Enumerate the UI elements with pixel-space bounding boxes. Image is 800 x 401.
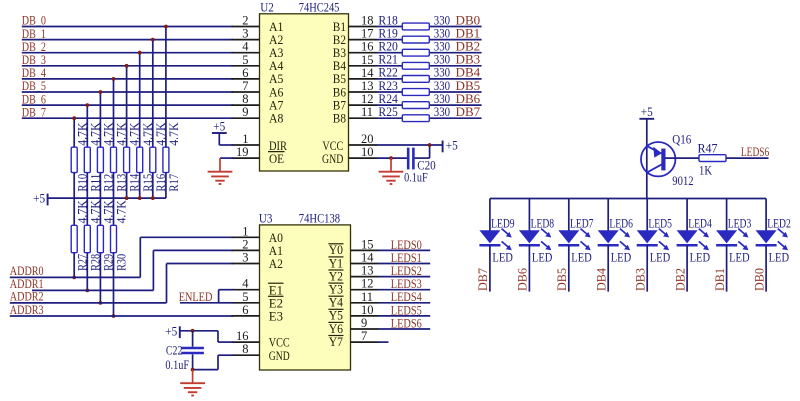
svg-text:B2: B2 [333, 33, 346, 47]
wire LED7 cathode [568, 245, 570, 291]
wire U3 GND route [193, 355, 233, 369]
capacitor C20 [404, 148, 436, 185]
svg-text:16: 16 [236, 329, 249, 343]
wire R27 to ADDR0 [73, 253, 75, 278]
wire R47 to LEDS6 [726, 157, 769, 159]
svg-text:E2: E2 [269, 296, 283, 310]
net label DB5 (rotated) [555, 268, 569, 291]
svg-text:LED: LED [690, 250, 711, 264]
svg-text:LED4: LED4 [688, 217, 712, 231]
net label LEDS5 [391, 303, 422, 317]
svg-text:DB_7: DB_7 [22, 105, 46, 119]
svg-text:DB5: DB5 [555, 268, 569, 291]
IC U2 designator [260, 0, 274, 14]
pin 8 (GND) of U3 [232, 342, 290, 363]
wire DB_5 to U2 pin 7 [22, 91, 233, 93]
svg-text:DB3: DB3 [456, 53, 481, 67]
svg-text:12: 12 [361, 92, 374, 106]
wire U3 Y5 to LEDS5 [379, 315, 431, 317]
junction on +5 rail [151, 196, 155, 200]
net label ADDR0 [10, 264, 44, 278]
wire +5 rail to R30 [113, 198, 115, 225]
net label DB6 (rotated) [516, 268, 530, 291]
net label DB_1 [22, 27, 46, 41]
wire LED anode bus [490, 198, 766, 200]
net label DB_7 [22, 105, 46, 119]
IC U2 part value 74HC245 [299, 0, 340, 14]
svg-text:DB4: DB4 [456, 66, 481, 80]
pin 8 (A7) of U2 [232, 92, 284, 112]
svg-text:10: 10 [361, 145, 374, 159]
resistor R17 [163, 123, 181, 192]
wire R12 to +5 rail [99, 173, 101, 199]
pin 13 (Y2) of U3 [328, 264, 378, 284]
svg-text:R22: R22 [378, 66, 398, 80]
pin 5 (A4) of U2 [232, 53, 285, 73]
wire R13 to +5 rail [113, 173, 115, 199]
wire ADDR1 to U3 A1 [32, 250, 233, 290]
svg-text:LED: LED [611, 250, 632, 264]
resistor R15 [137, 123, 155, 192]
svg-text:6: 6 [242, 66, 248, 80]
svg-text:LED3: LED3 [728, 217, 752, 231]
net label ENLED [179, 290, 213, 304]
svg-text:13: 13 [361, 264, 374, 278]
wire DB_2 to U2 pin 4 [22, 52, 233, 54]
svg-text:DB5: DB5 [456, 79, 481, 93]
svg-text:Y3: Y3 [329, 283, 343, 297]
svg-text:330: 330 [434, 13, 450, 27]
svg-text:A0: A0 [269, 231, 283, 245]
net label DB5 [456, 79, 481, 93]
capacitor C22 [165, 331, 204, 372]
junction on ADDR2 [99, 301, 103, 305]
LED LED2 [756, 199, 791, 265]
net label DB2 (rotated) [673, 268, 687, 291]
svg-text:0.1uF: 0.1uF [165, 358, 189, 372]
pin 15 (Y0) of U3 [328, 237, 378, 257]
svg-text:ADDR3: ADDR3 [10, 303, 44, 317]
net label ADDR1 [10, 277, 44, 291]
wire DB_1 to U2 pin 3 [22, 39, 233, 41]
net label DB6 [456, 92, 481, 106]
resistor R16 [150, 123, 168, 192]
LED LED6 [598, 199, 633, 265]
wire DB_7 to U2 pin 9 [22, 117, 233, 119]
net label DB7 (rotated) [476, 268, 490, 291]
resistor R22 [378, 66, 450, 83]
net label DB_5 [22, 79, 46, 93]
svg-text:1: 1 [242, 132, 248, 146]
wire DB_4 to U2 pin 6 [22, 78, 233, 80]
net label LEDS1 [391, 251, 422, 265]
junction on ADDR3 [112, 314, 116, 318]
wire +5 to U2 DIR [219, 144, 233, 146]
svg-text:Y6: Y6 [329, 322, 343, 336]
svg-text:R23: R23 [378, 79, 398, 93]
svg-text:LED6: LED6 [609, 217, 633, 231]
IC U3 74HC138 body [260, 225, 351, 370]
svg-text:19: 19 [236, 145, 249, 159]
svg-text:DB7: DB7 [456, 105, 481, 119]
svg-text:U2: U2 [260, 0, 274, 14]
wire +5 to U3 VCC [180, 331, 233, 342]
pin 10 (Y5) of U3 [328, 303, 378, 323]
svg-text:DB0: DB0 [456, 13, 481, 27]
net label DB3 [456, 53, 481, 67]
svg-text:LEDS6: LEDS6 [741, 145, 769, 159]
IC U3 part value 74HC138 [299, 211, 340, 225]
svg-text:20: 20 [361, 132, 374, 146]
pin 7 (Y7) of U3 [328, 329, 378, 349]
svg-text:2: 2 [242, 237, 248, 251]
svg-text:LED7: LED7 [570, 217, 594, 231]
wire R29 to ADDR2 [99, 253, 101, 303]
wire DB_7 to R10 [73, 118, 75, 147]
net label LEDS6 [391, 316, 422, 330]
pin 2 (A1) of U3 [232, 237, 284, 258]
resistor R24 [378, 92, 450, 109]
net label ADDR2 [10, 290, 44, 304]
IC U3 designator [259, 211, 273, 225]
net label DB_6 [22, 92, 46, 106]
wire R10 to +5 rail [73, 173, 75, 199]
svg-text:17: 17 [361, 27, 374, 41]
pin 4 (E1) of U3 [232, 277, 284, 298]
net label DB7 [456, 105, 481, 119]
wire U3 Y2 to LEDS2 [379, 276, 431, 278]
svg-text:74HC138: 74HC138 [299, 211, 340, 225]
ground at U2 OE [208, 158, 233, 184]
svg-text:+5: +5 [446, 139, 458, 153]
pin 16 (VCC) of U3 [232, 329, 290, 350]
svg-text:DIR: DIR [269, 139, 288, 153]
junction on DB_0 [164, 25, 168, 29]
svg-text:B4: B4 [333, 59, 347, 73]
svg-text:DB1: DB1 [456, 26, 481, 40]
net label DB3 (rotated) [634, 268, 648, 291]
svg-text:4: 4 [242, 40, 249, 54]
svg-text:A8: A8 [269, 112, 283, 126]
junction C22 top [191, 329, 195, 333]
net label DB0 (rotated) [752, 268, 766, 291]
pin 2 (A1) of U2 [232, 14, 284, 34]
net label DB4 (rotated) [595, 267, 609, 291]
wire U2 OE to ground [220, 157, 233, 159]
wire ADDR3 to U3 E3 [10, 315, 233, 317]
wire R15 to +5 rail [139, 173, 141, 199]
svg-text:LED8: LED8 [531, 217, 555, 231]
pin 20 (VCC) of U2 [322, 132, 377, 153]
wire ADDR0 to U3 A0 [10, 237, 233, 277]
transistor Q16 9012 [641, 133, 694, 188]
svg-text:DB0: DB0 [752, 268, 766, 291]
wire U2 pin 14 to DB4 [377, 78, 482, 80]
wire LED3 cathode [726, 245, 728, 291]
svg-text:A7: A7 [269, 98, 283, 112]
wire DB_2 to R15 [139, 53, 141, 148]
LED LED7 [558, 199, 593, 265]
resistor R23 [378, 79, 450, 96]
LED LED5 [637, 199, 672, 265]
wire +5 rail [48, 197, 166, 199]
ground at U2 GND [379, 158, 404, 184]
wire U2 pin 11 to DB7 [377, 117, 482, 119]
net label DB2 [456, 40, 481, 54]
svg-text:A1: A1 [269, 20, 283, 34]
svg-text:13: 13 [361, 79, 374, 93]
wire ADDR2 to U3 A2 [10, 264, 233, 303]
svg-text:Y0: Y0 [329, 243, 343, 257]
wire DB_5 to R12 [99, 92, 101, 147]
svg-text:8: 8 [242, 92, 248, 106]
svg-text:GND: GND [322, 152, 343, 166]
svg-text:LEDS3: LEDS3 [391, 277, 422, 291]
pin 12 (B7) of U2 [333, 92, 377, 112]
svg-text:1K: 1K [699, 164, 712, 178]
svg-text:Y1: Y1 [329, 256, 343, 270]
svg-text:Q16: Q16 [672, 133, 691, 147]
net label DB_3 [22, 53, 46, 67]
junction C22 bottom [191, 368, 195, 372]
wire DB_3 to U2 pin 5 [22, 65, 233, 67]
pin 7 (A6) of U2 [232, 79, 284, 99]
resistor R30 [111, 200, 129, 271]
wire LED9 cathode [489, 245, 491, 291]
wire U2 VCC to +5 [377, 144, 443, 146]
junction on DB_2 [138, 51, 142, 55]
svg-text:9: 9 [242, 105, 248, 119]
wire R28 to ADDR1 [86, 253, 88, 291]
junction on DB_5 [99, 90, 103, 94]
svg-text:DB6: DB6 [456, 92, 481, 106]
svg-text:9: 9 [361, 316, 367, 330]
svg-text:12: 12 [361, 277, 374, 291]
svg-text:B8: B8 [333, 112, 346, 126]
resistor R29 [97, 200, 115, 271]
pin 14 (B5) of U2 [333, 66, 377, 86]
wire DB_3 to R14 [126, 66, 128, 147]
wire R14 to +5 rail [126, 173, 128, 199]
svg-text:4: 4 [242, 277, 249, 291]
resistor R27 [71, 200, 89, 271]
ground below C22 [180, 370, 205, 396]
wire ENLED to U3 E1/E2 [180, 290, 233, 303]
svg-text:DB7: DB7 [476, 268, 490, 291]
svg-text:330: 330 [434, 66, 450, 80]
pin 14 (Y1) of U3 [328, 251, 378, 271]
svg-text:R17: R17 [167, 174, 181, 192]
svg-text:7: 7 [361, 329, 367, 343]
svg-text:Y4: Y4 [329, 296, 344, 310]
net label DB_0 [22, 14, 46, 28]
resistor R18 [378, 13, 450, 30]
svg-text:15: 15 [361, 237, 374, 251]
resistor R19 [378, 26, 450, 43]
resistor R12 [97, 123, 115, 192]
wire Q16 emitter/collector vertical [646, 119, 648, 199]
svg-text:A6: A6 [269, 85, 283, 99]
resistor R25 [378, 105, 450, 122]
wire LED4 cathode [686, 245, 688, 291]
svg-text:R21: R21 [378, 53, 398, 67]
svg-text:A5: A5 [269, 72, 283, 86]
junction on +5 rail [125, 196, 129, 200]
power +5 at U2 DIR [212, 119, 227, 145]
wire DB_0 to U2 pin 2 [22, 26, 233, 28]
wire R17 to +5 rail [165, 173, 167, 199]
pin 15 (B4) of U2 [333, 53, 377, 73]
wire R30 to ADDR3 [113, 253, 115, 316]
wire R16 to +5 rail [152, 173, 154, 199]
svg-text:18: 18 [361, 14, 374, 28]
svg-text:B3: B3 [333, 46, 346, 60]
wire LED8 cathode [528, 245, 530, 291]
junction at U2 GND ground stem [389, 156, 393, 160]
wire Q16 base to R47 [665, 157, 699, 159]
svg-text:C22: C22 [166, 344, 183, 358]
resistor R47 [698, 142, 727, 178]
svg-text:16: 16 [361, 40, 374, 54]
svg-text:7: 7 [242, 79, 248, 93]
svg-text:Y7: Y7 [329, 335, 343, 349]
net label LEDS6 [741, 145, 769, 159]
svg-text:330: 330 [434, 40, 450, 54]
svg-text:ENLED: ENLED [179, 290, 213, 304]
resistor R13 [111, 123, 129, 192]
wire LED2 cathode [765, 245, 767, 291]
pin 13 (B6) of U2 [333, 79, 377, 99]
svg-text:GND: GND [269, 349, 290, 363]
wire U2 pin 12 to DB6 [377, 104, 482, 106]
pin 16 (B3) of U2 [333, 40, 377, 60]
wire U2 pin 17 to DB1 [377, 39, 482, 41]
svg-text:8: 8 [242, 342, 248, 356]
wire LED5 cathode [646, 245, 648, 291]
junction on DB_6 [85, 103, 89, 107]
svg-text:14: 14 [361, 251, 374, 265]
pin 4 (A3) of U2 [232, 40, 284, 60]
resistor R11 [84, 123, 102, 192]
svg-text:A4: A4 [269, 59, 284, 73]
svg-text:DB_3: DB_3 [22, 53, 46, 67]
svg-text:14: 14 [361, 66, 374, 80]
svg-text:B5: B5 [333, 72, 346, 86]
pin 18 (B1) of U2 [333, 14, 377, 34]
svg-text:330: 330 [434, 53, 450, 67]
svg-text:5: 5 [242, 53, 248, 67]
wire +5 rail to R29 [99, 198, 101, 225]
svg-text:+5: +5 [213, 119, 225, 133]
svg-text:330: 330 [434, 79, 450, 93]
net label DB_2 [22, 40, 46, 54]
svg-text:330: 330 [434, 26, 450, 40]
svg-text:DB4: DB4 [595, 267, 609, 291]
junction on DB_7 [72, 116, 76, 120]
wire U2 pin 16 to DB2 [377, 52, 482, 54]
svg-text:11: 11 [361, 290, 373, 304]
svg-text:ADDR2: ADDR2 [10, 290, 44, 304]
wire LED6 cathode [607, 245, 609, 291]
wire +5 rail to R27 [73, 198, 75, 225]
svg-text:15: 15 [361, 53, 374, 67]
power +5 at U3 VCC [165, 324, 180, 338]
svg-text:R19: R19 [378, 26, 398, 40]
LED LED8 [519, 199, 554, 265]
wire DB_6 to R11 [86, 105, 88, 147]
svg-text:DB_5: DB_5 [22, 79, 46, 93]
pin 11 (B8) of U2 [333, 105, 377, 125]
svg-text:3: 3 [242, 251, 248, 265]
svg-text:10: 10 [361, 303, 374, 317]
svg-text:R18: R18 [378, 13, 398, 27]
svg-text:LEDS5: LEDS5 [391, 303, 422, 317]
svg-text:Y5: Y5 [329, 309, 343, 323]
resistor R20 [378, 40, 450, 57]
svg-text:R30: R30 [115, 254, 129, 271]
pin 5 (E2) of U3 [232, 290, 284, 311]
LED LED9 [479, 199, 514, 265]
pin 1 (DIR) of U2 [232, 132, 288, 153]
wire U2 pin 18 to DB0 [377, 26, 482, 28]
power +5 at Q16 [639, 105, 654, 119]
wire DB_4 to R13 [113, 79, 115, 147]
junction C20 to VCC wire [428, 143, 432, 147]
svg-text:E3: E3 [269, 310, 283, 324]
svg-text:DB_4: DB_4 [22, 66, 47, 80]
svg-text:LEDS0: LEDS0 [391, 238, 422, 252]
svg-text:DB1: DB1 [713, 268, 727, 291]
svg-text:ADDR0: ADDR0 [10, 264, 44, 278]
svg-text:B1: B1 [333, 20, 346, 34]
svg-text:74HC245: 74HC245 [299, 0, 340, 14]
svg-text:+5: +5 [641, 105, 653, 119]
junction on +5 rail [138, 196, 142, 200]
pin 12 (Y3) of U3 [328, 277, 378, 297]
svg-text:LED9: LED9 [491, 217, 514, 231]
svg-text:6: 6 [242, 303, 248, 317]
pin 19 (OE) of U2 [232, 145, 285, 166]
wire U3 Y1 to LEDS1 [379, 263, 431, 265]
svg-text:4.7K: 4.7K [167, 123, 181, 146]
svg-text:DB_2: DB_2 [22, 40, 46, 54]
svg-text:DB2: DB2 [673, 268, 687, 291]
svg-text:9012: 9012 [672, 174, 693, 188]
svg-text:DB_6: DB_6 [22, 92, 46, 106]
svg-text:LED: LED [729, 250, 750, 264]
net label LEDS4 [391, 290, 423, 304]
svg-text:R20: R20 [378, 40, 398, 54]
svg-text:LED: LED [650, 250, 671, 264]
svg-text:LED: LED [769, 250, 790, 264]
wire DB_6 to U2 pin 8 [22, 104, 233, 106]
svg-text:LEDS2: LEDS2 [391, 264, 422, 278]
svg-text:E1: E1 [269, 283, 283, 297]
svg-text:+5: +5 [33, 192, 45, 206]
svg-text:DB_1: DB_1 [22, 27, 46, 41]
svg-text:B7: B7 [333, 98, 346, 112]
resistor R28 [84, 200, 102, 271]
junction on DB_1 [151, 38, 155, 42]
net label DB_4 [22, 66, 47, 80]
net label DB1 [456, 26, 481, 40]
svg-text:DB2: DB2 [456, 40, 481, 54]
svg-text:A3: A3 [269, 46, 283, 60]
svg-text:LED: LED [571, 250, 592, 264]
svg-text:330: 330 [434, 92, 450, 106]
svg-text:R25: R25 [378, 105, 398, 119]
svg-text:R24: R24 [378, 92, 398, 106]
